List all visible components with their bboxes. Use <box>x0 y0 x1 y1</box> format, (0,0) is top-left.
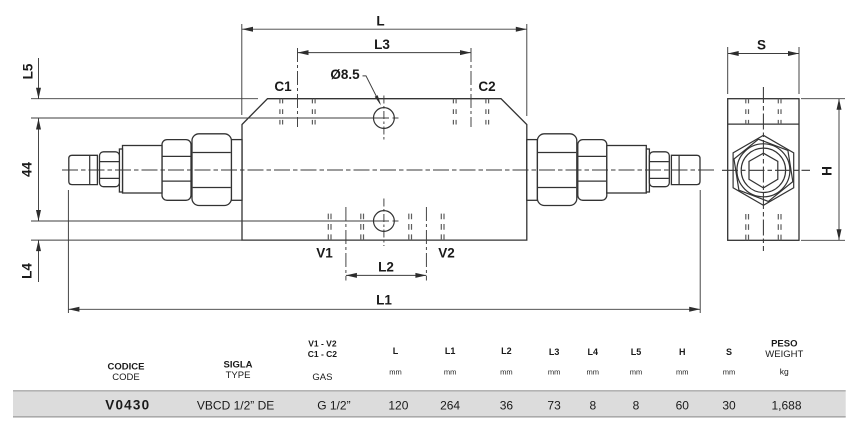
svg-text:C1: C1 <box>274 79 292 94</box>
svg-text:CODE: CODE <box>112 372 139 383</box>
svg-text:L1: L1 <box>445 346 456 356</box>
dimension S line with arrows <box>728 53 799 55</box>
svg-text:GAS: GAS <box>312 372 332 383</box>
dimension L1 line with arrows <box>68 308 700 310</box>
nut second hexagon (rotated) <box>732 135 796 206</box>
side view body <box>728 99 799 241</box>
small hex <box>649 152 669 187</box>
svg-text:mm: mm <box>676 368 689 377</box>
svg-text:120: 120 <box>388 399 408 413</box>
top mounting hole center extension line <box>31 117 389 119</box>
dimension L1 extension lines <box>67 190 69 313</box>
allen socket hexagon <box>749 153 778 188</box>
svg-text:30: 30 <box>722 399 736 413</box>
mid hex <box>162 140 191 201</box>
svg-text:mm: mm <box>444 368 457 377</box>
dimension L line with arrows <box>242 28 527 30</box>
dimension L2 line with arrows <box>346 274 427 276</box>
svg-text:264: 264 <box>440 399 460 413</box>
svg-text:L1: L1 <box>376 293 392 308</box>
svg-text:L4: L4 <box>20 263 35 279</box>
svg-text:V1: V1 <box>316 246 333 261</box>
svg-text:V2: V2 <box>438 246 455 261</box>
svg-text:L4: L4 <box>588 347 599 357</box>
port C1 axis <box>297 48 299 127</box>
svg-text:C2: C2 <box>478 79 495 94</box>
bottom mounting hole vertical centerline <box>383 199 385 247</box>
spring housing cylinder <box>607 146 647 194</box>
threaded stub tip <box>69 155 98 184</box>
svg-text:L3: L3 <box>374 37 390 52</box>
big hex nut <box>192 134 231 206</box>
port V2 hidden thread lines <box>408 214 410 241</box>
svg-text:mm: mm <box>389 368 402 377</box>
svg-text:CODICE: CODICE <box>108 362 145 373</box>
small hex <box>100 152 120 187</box>
port V2 axis <box>425 207 427 281</box>
svg-text:WEIGHT: WEIGHT <box>765 349 803 360</box>
side view horizontal centerline <box>722 169 810 171</box>
dimension L5 arrow <box>38 58 40 99</box>
svg-text:mm: mm <box>500 368 513 377</box>
mid hex <box>578 140 607 201</box>
svg-text:V0430: V0430 <box>105 398 150 413</box>
nut thread circle inner <box>741 148 785 192</box>
flange washer <box>646 149 649 192</box>
big hex nut <box>537 134 576 206</box>
svg-text:H: H <box>679 347 686 357</box>
dimension H extension lines <box>801 98 845 100</box>
port C1 hidden thread lines <box>279 99 281 125</box>
top edge extension line (left) <box>31 98 258 100</box>
top mounting hole vertical centerline <box>383 96 385 142</box>
svg-text:S: S <box>757 38 766 53</box>
spring housing cylinder <box>123 146 163 194</box>
threaded stub tip <box>671 155 700 184</box>
svg-text:S: S <box>726 347 732 357</box>
bottom mounting hole center extension line <box>31 220 389 222</box>
svg-text:mm: mm <box>587 368 600 377</box>
dimension S extension lines <box>727 47 729 94</box>
svg-text:mm: mm <box>630 368 643 377</box>
table data row band <box>13 391 846 417</box>
svg-text:V1 - V2: V1 - V2 <box>308 338 337 348</box>
port V1 axis <box>345 207 347 281</box>
port C2 axis <box>470 48 472 127</box>
svg-text:L: L <box>393 346 399 356</box>
svg-text:8: 8 <box>633 399 640 413</box>
dimension 44 line with arrows <box>38 119 40 222</box>
svg-text:L2: L2 <box>501 346 512 356</box>
svg-text:36: 36 <box>500 399 514 413</box>
svg-text:kg: kg <box>780 367 789 377</box>
side view port hidden thread lines bottom <box>745 214 747 240</box>
svg-text:VBCD 1/2” DE: VBCD 1/2” DE <box>197 399 274 413</box>
dimension L3 line with arrows <box>298 52 472 54</box>
svg-text:L2: L2 <box>378 260 394 275</box>
right cartridge (mirror of left) <box>527 134 700 206</box>
left cartridge <box>69 134 242 206</box>
dimension H line with arrows <box>838 99 840 241</box>
side view chamfer edge line <box>728 123 799 125</box>
svg-text:H: H <box>820 166 835 176</box>
main horizontal axis centerline <box>62 169 715 171</box>
dimension L extension lines <box>241 24 243 115</box>
svg-text:1,688: 1,688 <box>771 399 801 413</box>
valve block body <box>242 99 527 240</box>
svg-text:L5: L5 <box>631 347 642 357</box>
svg-text:mm: mm <box>548 368 561 377</box>
svg-text:L5: L5 <box>21 63 36 79</box>
svg-text:8: 8 <box>589 399 596 413</box>
nut outer hexagon <box>733 135 794 205</box>
side view vertical centerline <box>762 87 764 251</box>
mounting hole D8.5 bottom <box>374 211 395 232</box>
svg-text:G 1/2”: G 1/2” <box>317 399 350 413</box>
mounting hole D8.5 top <box>374 108 395 129</box>
svg-text:L3: L3 <box>549 347 560 357</box>
side view port hidden thread lines top <box>745 99 747 124</box>
svg-text:Ø8.5: Ø8.5 <box>330 67 360 82</box>
cartridge seat plate <box>527 140 538 201</box>
svg-text:60: 60 <box>676 399 690 413</box>
bottom edge extension line (left) <box>31 239 242 241</box>
cartridge seat plate <box>231 140 242 201</box>
svg-text:C1 - C2: C1 - C2 <box>308 349 338 359</box>
svg-text:SIGLA: SIGLA <box>223 360 252 371</box>
port V1 hidden thread lines <box>327 214 329 241</box>
svg-text:73: 73 <box>547 399 561 413</box>
svg-text:TYPE: TYPE <box>226 370 251 381</box>
flange washer <box>119 149 122 192</box>
nut chamfer circle outer <box>737 144 790 197</box>
svg-text:L: L <box>376 14 384 29</box>
svg-text:44: 44 <box>20 162 35 178</box>
svg-text:mm: mm <box>723 368 736 377</box>
dimension L4 arrow <box>38 240 40 282</box>
port C2 hidden thread lines <box>452 99 454 125</box>
